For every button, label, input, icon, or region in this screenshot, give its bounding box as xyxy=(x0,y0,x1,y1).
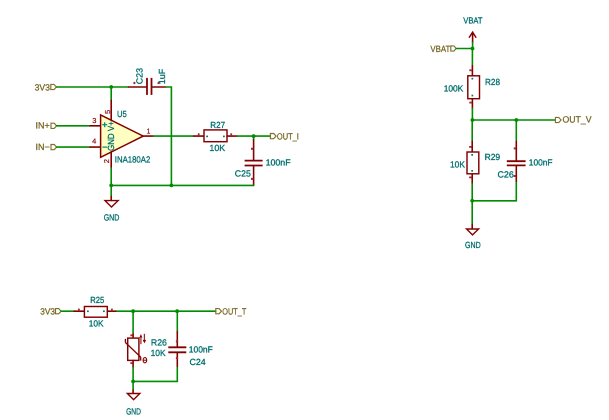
hierarchical label 3V3 xyxy=(35,82,57,92)
junction thermistor node xyxy=(131,309,135,313)
value 100K xyxy=(444,84,464,94)
svg-text:3V3: 3V3 xyxy=(35,82,50,92)
hierarchical label OUT_I xyxy=(270,131,299,141)
junction node A (3V3 / V+) xyxy=(109,85,113,89)
junction VBAT node xyxy=(471,47,475,51)
wire node to C24 xyxy=(176,311,178,331)
thermistor temperature arrows xyxy=(139,334,146,344)
ground symbol (circuit 3) xyxy=(127,381,139,399)
junction C26 top xyxy=(514,118,518,122)
wire bottom ground rail xyxy=(133,380,177,382)
svg-text:3V3: 3V3 xyxy=(40,307,55,317)
label C26 xyxy=(498,169,514,179)
label R29 xyxy=(485,152,501,162)
svg-text:100nF: 100nF xyxy=(266,157,292,167)
svg-text:OUT_T: OUT_T xyxy=(222,307,246,317)
op-amp U5 pin 3 xyxy=(90,116,101,126)
svg-text:C25: C25 xyxy=(235,168,251,178)
capacitor C25 xyxy=(245,136,263,185)
svg-text:IN−: IN− xyxy=(36,142,50,152)
svg-text:VBAT: VBAT xyxy=(463,16,483,26)
wire C23 to ground rail xyxy=(166,87,171,185)
value 10K xyxy=(89,319,104,329)
svg-text:R29: R29 xyxy=(485,152,501,162)
hierarchical label OUT_T xyxy=(216,307,247,317)
label R25 xyxy=(90,295,104,305)
svg-text:GND: GND xyxy=(104,213,120,223)
ground rail wire xyxy=(111,184,253,186)
resistor R28 xyxy=(468,66,480,109)
svg-text:1: 1 xyxy=(147,127,151,136)
wire divider node to R29 xyxy=(471,120,473,141)
wire pin1 to R27 xyxy=(154,135,194,137)
op-amp U5 pin 4 xyxy=(90,136,101,147)
wire 3V3 to node A xyxy=(56,86,111,88)
wire IN- xyxy=(57,146,90,148)
wire node A to C23 xyxy=(111,86,128,88)
svg-text:C23: C23 xyxy=(134,68,144,84)
wire divider node to OUT_V xyxy=(472,119,555,121)
svg-text:10K: 10K xyxy=(450,159,465,169)
thermistor R26 xyxy=(125,334,140,368)
svg-text:5: 5 xyxy=(103,110,112,114)
wire R29 to ground node xyxy=(471,184,473,201)
svg-text:GND: GND xyxy=(465,240,481,250)
label R27 xyxy=(210,120,225,130)
svg-text:R28: R28 xyxy=(485,77,500,87)
svg-text:OUT_I: OUT_I xyxy=(277,131,299,141)
op-amp plus mark xyxy=(102,122,107,127)
value INA180A2 xyxy=(115,154,151,164)
svg-text:OUT_V: OUT_V xyxy=(563,115,592,125)
value 10K xyxy=(450,159,465,169)
svg-text:100nF: 100nF xyxy=(189,344,214,354)
value 100nF (C26) xyxy=(529,157,553,167)
svg-text:10K: 10K xyxy=(151,348,166,358)
label C24 xyxy=(190,357,206,367)
hierarchical label IN- xyxy=(36,142,57,152)
svg-text:VBAT: VBAT xyxy=(430,44,450,54)
svg-text:R25: R25 xyxy=(90,295,104,305)
svg-text:GND V+: GND V+ xyxy=(106,121,116,151)
svg-text:IN+: IN+ xyxy=(36,120,50,130)
ground symbol (circuit 1) xyxy=(105,185,118,207)
resistor R25 xyxy=(74,307,117,318)
label C23 xyxy=(134,68,144,84)
resistor R29 xyxy=(467,141,479,184)
junction ground node xyxy=(470,199,474,203)
label R26 xyxy=(151,337,167,347)
hierarchical label VBAT xyxy=(430,44,456,54)
wire VBAT label to junction xyxy=(456,48,472,50)
wire node to thermistor R26 xyxy=(132,311,134,334)
value 10K xyxy=(209,143,225,153)
capacitor C24 xyxy=(168,332,186,382)
svg-text:10K: 10K xyxy=(209,143,225,153)
op-amp U5 body xyxy=(101,115,144,157)
resistor R27 xyxy=(194,130,238,142)
wire R25 to OUT_T xyxy=(117,310,216,312)
label R28 xyxy=(485,77,500,87)
label GND (circuit 2) xyxy=(465,240,481,250)
ground symbol (circuit 2) xyxy=(467,201,479,235)
svg-text:R27: R27 xyxy=(210,120,225,130)
value 10K xyxy=(151,348,166,358)
svg-text:4: 4 xyxy=(92,136,96,145)
op-amp minus mark xyxy=(102,146,107,148)
svg-text:R26: R26 xyxy=(151,337,167,347)
svg-text:2: 2 xyxy=(102,159,111,163)
power symbol VBAT xyxy=(463,16,483,49)
value 100nF (C24) xyxy=(189,344,214,354)
reference U5 xyxy=(117,109,127,119)
value 1uF xyxy=(157,68,167,84)
svg-text:100nF: 100nF xyxy=(529,157,553,167)
hierarchical label 3V3 (bottom) xyxy=(40,307,61,317)
junction node OUT_I xyxy=(252,134,256,138)
svg-text:U5: U5 xyxy=(117,109,127,119)
svg-text:100K: 100K xyxy=(444,84,464,94)
svg-text:10K: 10K xyxy=(89,319,104,329)
wire 3V3 to R25 xyxy=(61,310,74,312)
wire thermistor to ground node xyxy=(132,368,134,382)
hierarchical label IN+ xyxy=(36,120,57,130)
wire R27 to OUT_I xyxy=(237,135,270,137)
junction ground rail / pin2 xyxy=(109,184,113,188)
svg-text:C26: C26 xyxy=(498,169,514,179)
op-amp pin labels GND V+ xyxy=(106,121,116,151)
wire IN+ xyxy=(57,125,90,127)
wire R28 to divider node xyxy=(471,108,473,120)
op-amp pin 5 (V+) xyxy=(103,87,112,120)
op-amp pin 2 (GND) xyxy=(102,152,111,186)
svg-text:INA180A2: INA180A2 xyxy=(115,154,151,164)
svg-text:1uF: 1uF xyxy=(157,68,167,84)
wire junction to R28 xyxy=(471,49,473,66)
svg-text:GND: GND xyxy=(126,407,141,417)
svg-text:3: 3 xyxy=(92,116,96,125)
capacitor C23 xyxy=(129,78,167,95)
label C25 xyxy=(235,168,251,178)
junction divider node xyxy=(471,118,475,122)
svg-text:C24: C24 xyxy=(190,357,206,367)
wire ground node xyxy=(472,200,516,202)
junction C23 / ground rail xyxy=(170,184,174,188)
hierarchical label OUT_V xyxy=(555,115,591,125)
junction bottom ground xyxy=(131,380,135,384)
capacitor C26 xyxy=(507,120,526,201)
op-amp pin 1 (output) xyxy=(143,127,153,137)
junction C24 node xyxy=(175,309,179,313)
value 100nF (C25) xyxy=(266,157,292,167)
thermistor theta mark xyxy=(143,358,147,363)
label GND (circuit 1) xyxy=(104,213,120,223)
label GND (circuit 3) xyxy=(126,407,141,417)
